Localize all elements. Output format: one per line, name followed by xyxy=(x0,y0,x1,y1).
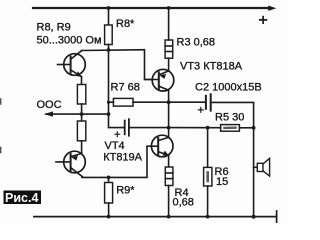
node: VT2 collector / R9* junction xyxy=(107,176,111,180)
wire: C2 right lead down to R5 right node xyxy=(211,102,254,127)
svg-text:15: 15 xyxy=(216,176,228,188)
wire: R7 right lead to output node xyxy=(133,101,169,103)
resistor R4 xyxy=(165,167,173,186)
wire: vertical bus R8*-R7-OOC-C1 xyxy=(109,50,124,128)
label: Рис.4 (figure caption) xyxy=(4,191,42,205)
node: output node at R7/C2 line xyxy=(167,100,171,104)
wire: R5 right lead xyxy=(239,127,253,129)
resistor R7 xyxy=(113,98,133,106)
wire: R3 bottom lead to VT3 emitter xyxy=(168,58,170,71)
wire: R5 left lead xyxy=(208,127,221,129)
svg-text:C2 1000x15В: C2 1000x15В xyxy=(195,82,262,94)
svg-text:50...3000 Ом: 50...3000 Ом xyxy=(37,34,102,46)
svg-text:R3 0,68: R3 0,68 xyxy=(177,37,216,49)
wire: C1 line over to R5 left node xyxy=(169,127,208,129)
svg-text:ООС: ООС xyxy=(37,99,62,111)
wire: VT2 collector run to VT4 base xyxy=(82,146,152,177)
svg-text:Рис.4: Рис.4 xyxy=(5,191,38,205)
svg-text:R5 30: R5 30 xyxy=(215,112,244,124)
wire: R7 left lead xyxy=(109,101,114,103)
node: R6 / rail junction xyxy=(206,215,210,219)
wire: VT4 emitter lead xyxy=(168,155,170,167)
node: top rail / R3 junction xyxy=(167,6,171,10)
wire: VT1 collector to R8* junction and over to VT3 base xyxy=(82,50,153,80)
node: emitter resistors / OOC junction xyxy=(80,112,84,116)
resistor R8* xyxy=(105,25,113,45)
resistor R5 xyxy=(221,125,240,132)
svg-text:R8, R9: R8, R9 xyxy=(37,22,71,34)
wire: R9* top lead xyxy=(108,177,110,182)
node: R8* bottom junction xyxy=(107,48,111,52)
wire: VT1 emitter lead xyxy=(81,77,83,85)
transistor VT3 (KT818A, PNP) xyxy=(145,69,174,91)
svg-text:R9*: R9* xyxy=(116,185,135,197)
wire: R3 top lead xyxy=(168,8,170,40)
wire: speaker branch vertical xyxy=(253,128,255,217)
label: + (supply polarity) xyxy=(260,17,267,24)
node: speaker / rail junction xyxy=(252,215,256,219)
wire: C1 right plate to output line xyxy=(129,127,169,129)
wire: R9 top lead xyxy=(81,114,83,121)
svg-text:R7 68: R7 68 xyxy=(111,82,140,94)
node: R9* / rail junction xyxy=(107,215,111,219)
node: output node at C1/R5 line xyxy=(167,126,171,130)
svg-text:R8*: R8* xyxy=(116,18,135,30)
wire: R6 bottom lead xyxy=(207,186,209,217)
wire: OOC feedback line xyxy=(46,113,109,115)
transistor VT1 (upper driver, NPN) xyxy=(58,51,86,77)
svg-text:0,68: 0,68 xyxy=(173,197,194,209)
node: R7 left tap xyxy=(107,101,110,104)
node: R5 right / speaker branch junction xyxy=(252,126,256,130)
wire: VT3 collector / VT4 collector vertical (output node) xyxy=(168,90,170,137)
svg-text:КТ819А: КТ819А xyxy=(103,152,142,164)
wire: R8* top lead xyxy=(108,8,110,25)
wire: R9* bottom lead xyxy=(108,203,110,217)
wire: R4 bottom lead xyxy=(168,186,170,217)
resistor R3 xyxy=(165,40,173,58)
artifact: left page-edge tick lower xyxy=(0,148,2,153)
wire: +V top rail xyxy=(33,7,270,9)
arrow: +V rail right arrowhead xyxy=(268,6,276,11)
wire: R8* bottom lead xyxy=(108,45,110,51)
resistor R9 (lower emitter resistor, unlabeled) xyxy=(77,121,85,141)
transistor VT2 (lower driver, PNP) xyxy=(56,151,85,176)
terminal: bottom rail end tick xyxy=(276,211,278,222)
node: OOC / vertical bus junction xyxy=(107,112,111,116)
wire: ground/negative bottom rail xyxy=(34,216,277,218)
speaker BA1 xyxy=(254,158,270,176)
resistor R6 xyxy=(204,167,212,186)
wire: output node to C2 left plate xyxy=(169,101,206,103)
artifact: left page-edge tick upper xyxy=(0,99,2,104)
wire: R9 bottom lead to VT2 emitter xyxy=(81,141,83,154)
wire: R8 bottom lead xyxy=(81,104,83,114)
arrow: OOC arrowhead xyxy=(44,111,53,116)
node: top rail / R8* junction xyxy=(107,6,111,10)
wire: R6 top lead xyxy=(207,128,209,168)
resistor R8 (upper emitter resistor, unlabeled) xyxy=(77,85,85,105)
capacitor C2 (1000uF output electrolytic) xyxy=(198,94,210,112)
capacitor C1 (feedback electrolytic) xyxy=(115,119,129,136)
resistor R9* xyxy=(105,183,113,204)
svg-text:VT3 КТ818А: VT3 КТ818А xyxy=(180,61,243,73)
node: R4 / rail junction xyxy=(167,215,171,219)
node: R5 left / R6 top junction xyxy=(206,126,210,130)
transistor VT4 (KT819A, NPN) xyxy=(151,135,173,157)
svg-text:VT4: VT4 xyxy=(105,140,125,152)
